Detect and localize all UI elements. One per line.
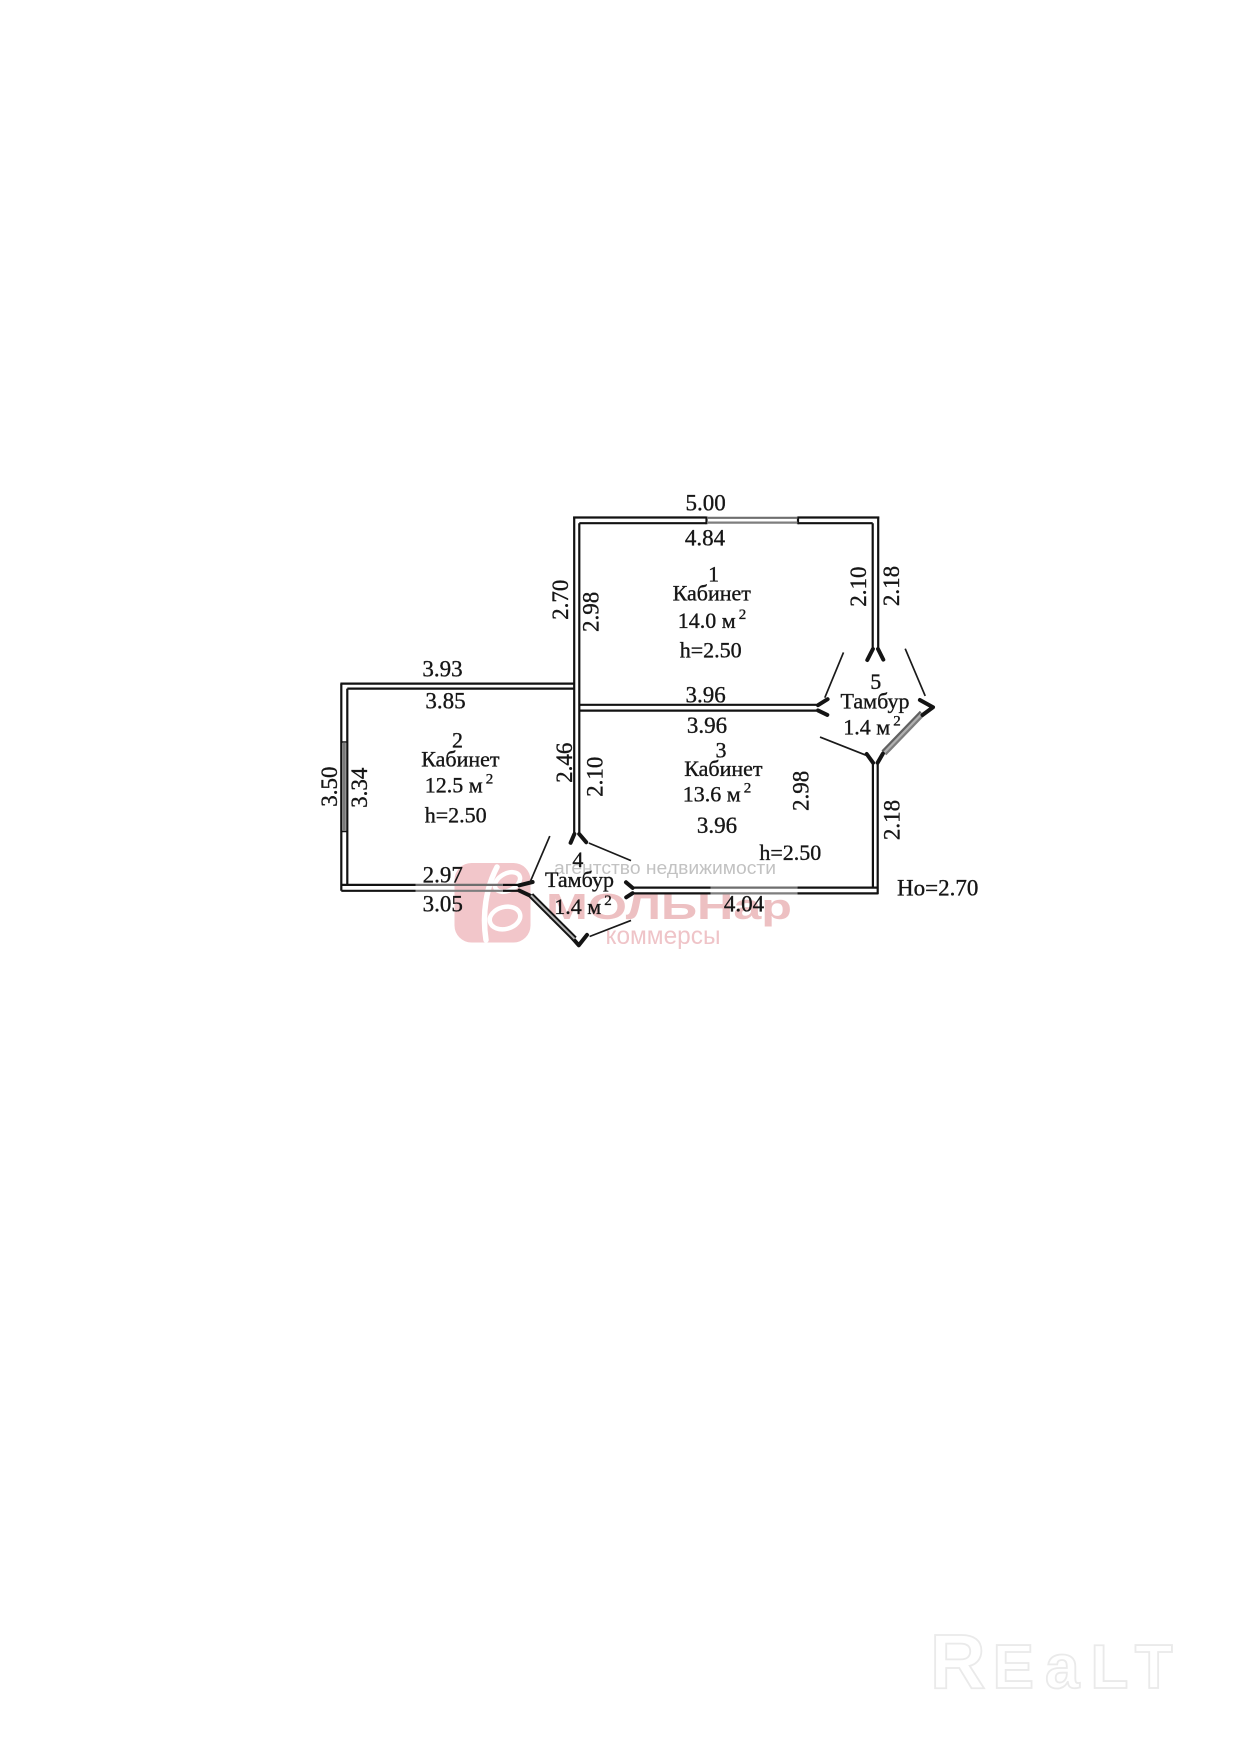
jamb tambour5 right chevron	[920, 700, 933, 715]
door leaf tambour5 left	[825, 652, 844, 697]
svg-text:2.97: 2.97	[423, 863, 463, 888]
watermark Realt bottom right	[930, 1619, 1184, 1705]
wall room2 bottom upper line (left part)	[341, 884, 415, 886]
svg-text:3.96: 3.96	[697, 813, 737, 838]
svg-text:2.18: 2.18	[879, 566, 904, 606]
wall room1 top outer (left part)	[573, 516, 706, 518]
wall room3 right outer	[877, 763, 879, 894]
wall divider rooms 1-3 top line	[579, 704, 816, 706]
wall room2 top inner	[347, 687, 574, 689]
wall room3 bottom upper line (left part)	[633, 886, 711, 888]
svg-text:Кабинет: Кабинет	[421, 747, 500, 772]
svg-text:h=2.50: h=2.50	[425, 803, 487, 828]
door leaf tambour4 upper right	[589, 843, 631, 861]
wall room1 right inner	[872, 523, 874, 647]
cap room1 right wall end	[867, 649, 883, 660]
svg-text:h=2.50: h=2.50	[680, 638, 742, 663]
svg-text:Но=2.70: Но=2.70	[897, 876, 978, 901]
svg-text:2.98: 2.98	[579, 592, 604, 632]
watermark agency logo (pink rounded square with white script B)	[455, 863, 531, 943]
wall room1 top inner (left part)	[579, 522, 706, 524]
wall shared vertical right line	[578, 523, 580, 833]
svg-text:3.96: 3.96	[685, 683, 725, 708]
cap room3 right wall top	[867, 754, 883, 763]
jamb divider wall right end	[818, 699, 828, 715]
svg-text:4.84: 4.84	[685, 526, 726, 551]
svg-text:Тамбур: Тамбур	[841, 689, 910, 714]
door jamb caps	[519, 649, 933, 945]
wall room2 left outer	[340, 684, 342, 891]
door leaf tambour5 lower	[820, 737, 866, 755]
wall room3 bottom upper line (right part)	[797, 886, 878, 888]
svg-text:2.98: 2.98	[789, 771, 814, 811]
rotated dimension labels	[317, 566, 904, 840]
window W2 room2 left (center gray line)	[343, 743, 346, 831]
wall room2 bottom lower line (left part)	[341, 890, 415, 892]
svg-text:2.10: 2.10	[846, 566, 871, 606]
window W3 room2 bottom	[416, 884, 504, 886]
svg-text:3.93: 3.93	[422, 657, 462, 682]
wall room3 right inner	[872, 763, 874, 888]
svg-text:3.85: 3.85	[425, 689, 465, 714]
svg-text:3.05: 3.05	[423, 892, 463, 917]
wall shared vertical left line	[573, 517, 575, 834]
jamb room2 bottom wall right end	[519, 882, 533, 897]
svg-text:2.46: 2.46	[552, 743, 577, 783]
svg-text:Тамбур: Тамбур	[545, 867, 614, 892]
wall room2 left inner	[346, 689, 348, 885]
svg-text:Кабинет: Кабинет	[673, 581, 752, 606]
tambour5 gray diagonal wall	[884, 713, 922, 753]
svg-text:h=2.50: h=2.50	[759, 840, 821, 865]
door leaf tambour4 left	[529, 836, 550, 884]
wall room1 top outer (right part)	[798, 516, 879, 518]
door leaf tambour4 lower right	[590, 920, 631, 936]
window W2 tick bottom	[341, 831, 349, 833]
wall room3 bottom lower line (right part)	[797, 892, 878, 894]
svg-text:2.70: 2.70	[548, 580, 573, 620]
wall divider rooms 1-3 bottom line	[579, 709, 816, 711]
window W4 room3 bottom	[711, 886, 798, 888]
svg-text:3.34: 3.34	[347, 767, 372, 808]
svg-text:2.10: 2.10	[582, 757, 607, 797]
svg-text:4.04: 4.04	[724, 892, 765, 917]
svg-text:3.50: 3.50	[317, 766, 342, 806]
cap shared wall bottom (above tambour4)	[571, 834, 587, 843]
door leaf tambour5 right	[905, 649, 925, 696]
jamb room3 bottom wall left end	[626, 882, 633, 897]
wall room1 right outer	[877, 517, 879, 648]
wall room2 top outer	[340, 682, 574, 684]
wall closing bar right of window W1	[797, 517, 799, 525]
wall room3 bottom lower line (left part)	[633, 892, 711, 894]
svg-text:3.96: 3.96	[687, 713, 727, 738]
wall closing bar left of window W1	[705, 517, 707, 525]
svg-text:2.18: 2.18	[879, 800, 904, 840]
windows (gray wall segments)	[344, 518, 924, 894]
cap tambour4 diagonal bottom V	[571, 935, 587, 945]
window W1 room1 top	[707, 517, 798, 519]
wall room2 bottom lower line (right part)	[503, 890, 518, 892]
svg-text:Кабинет: Кабинет	[684, 756, 763, 781]
window W2 tick top	[341, 741, 349, 743]
wall room2 bottom upper line (right part)	[503, 884, 518, 886]
door leaves (thin lines)	[529, 649, 925, 937]
tambour4 black diagonal wall	[530, 894, 576, 940]
wall room1 top inner (right part)	[798, 522, 873, 524]
svg-text:5.00: 5.00	[685, 491, 725, 516]
svg-text:коммерсы: коммерсы	[606, 922, 721, 950]
